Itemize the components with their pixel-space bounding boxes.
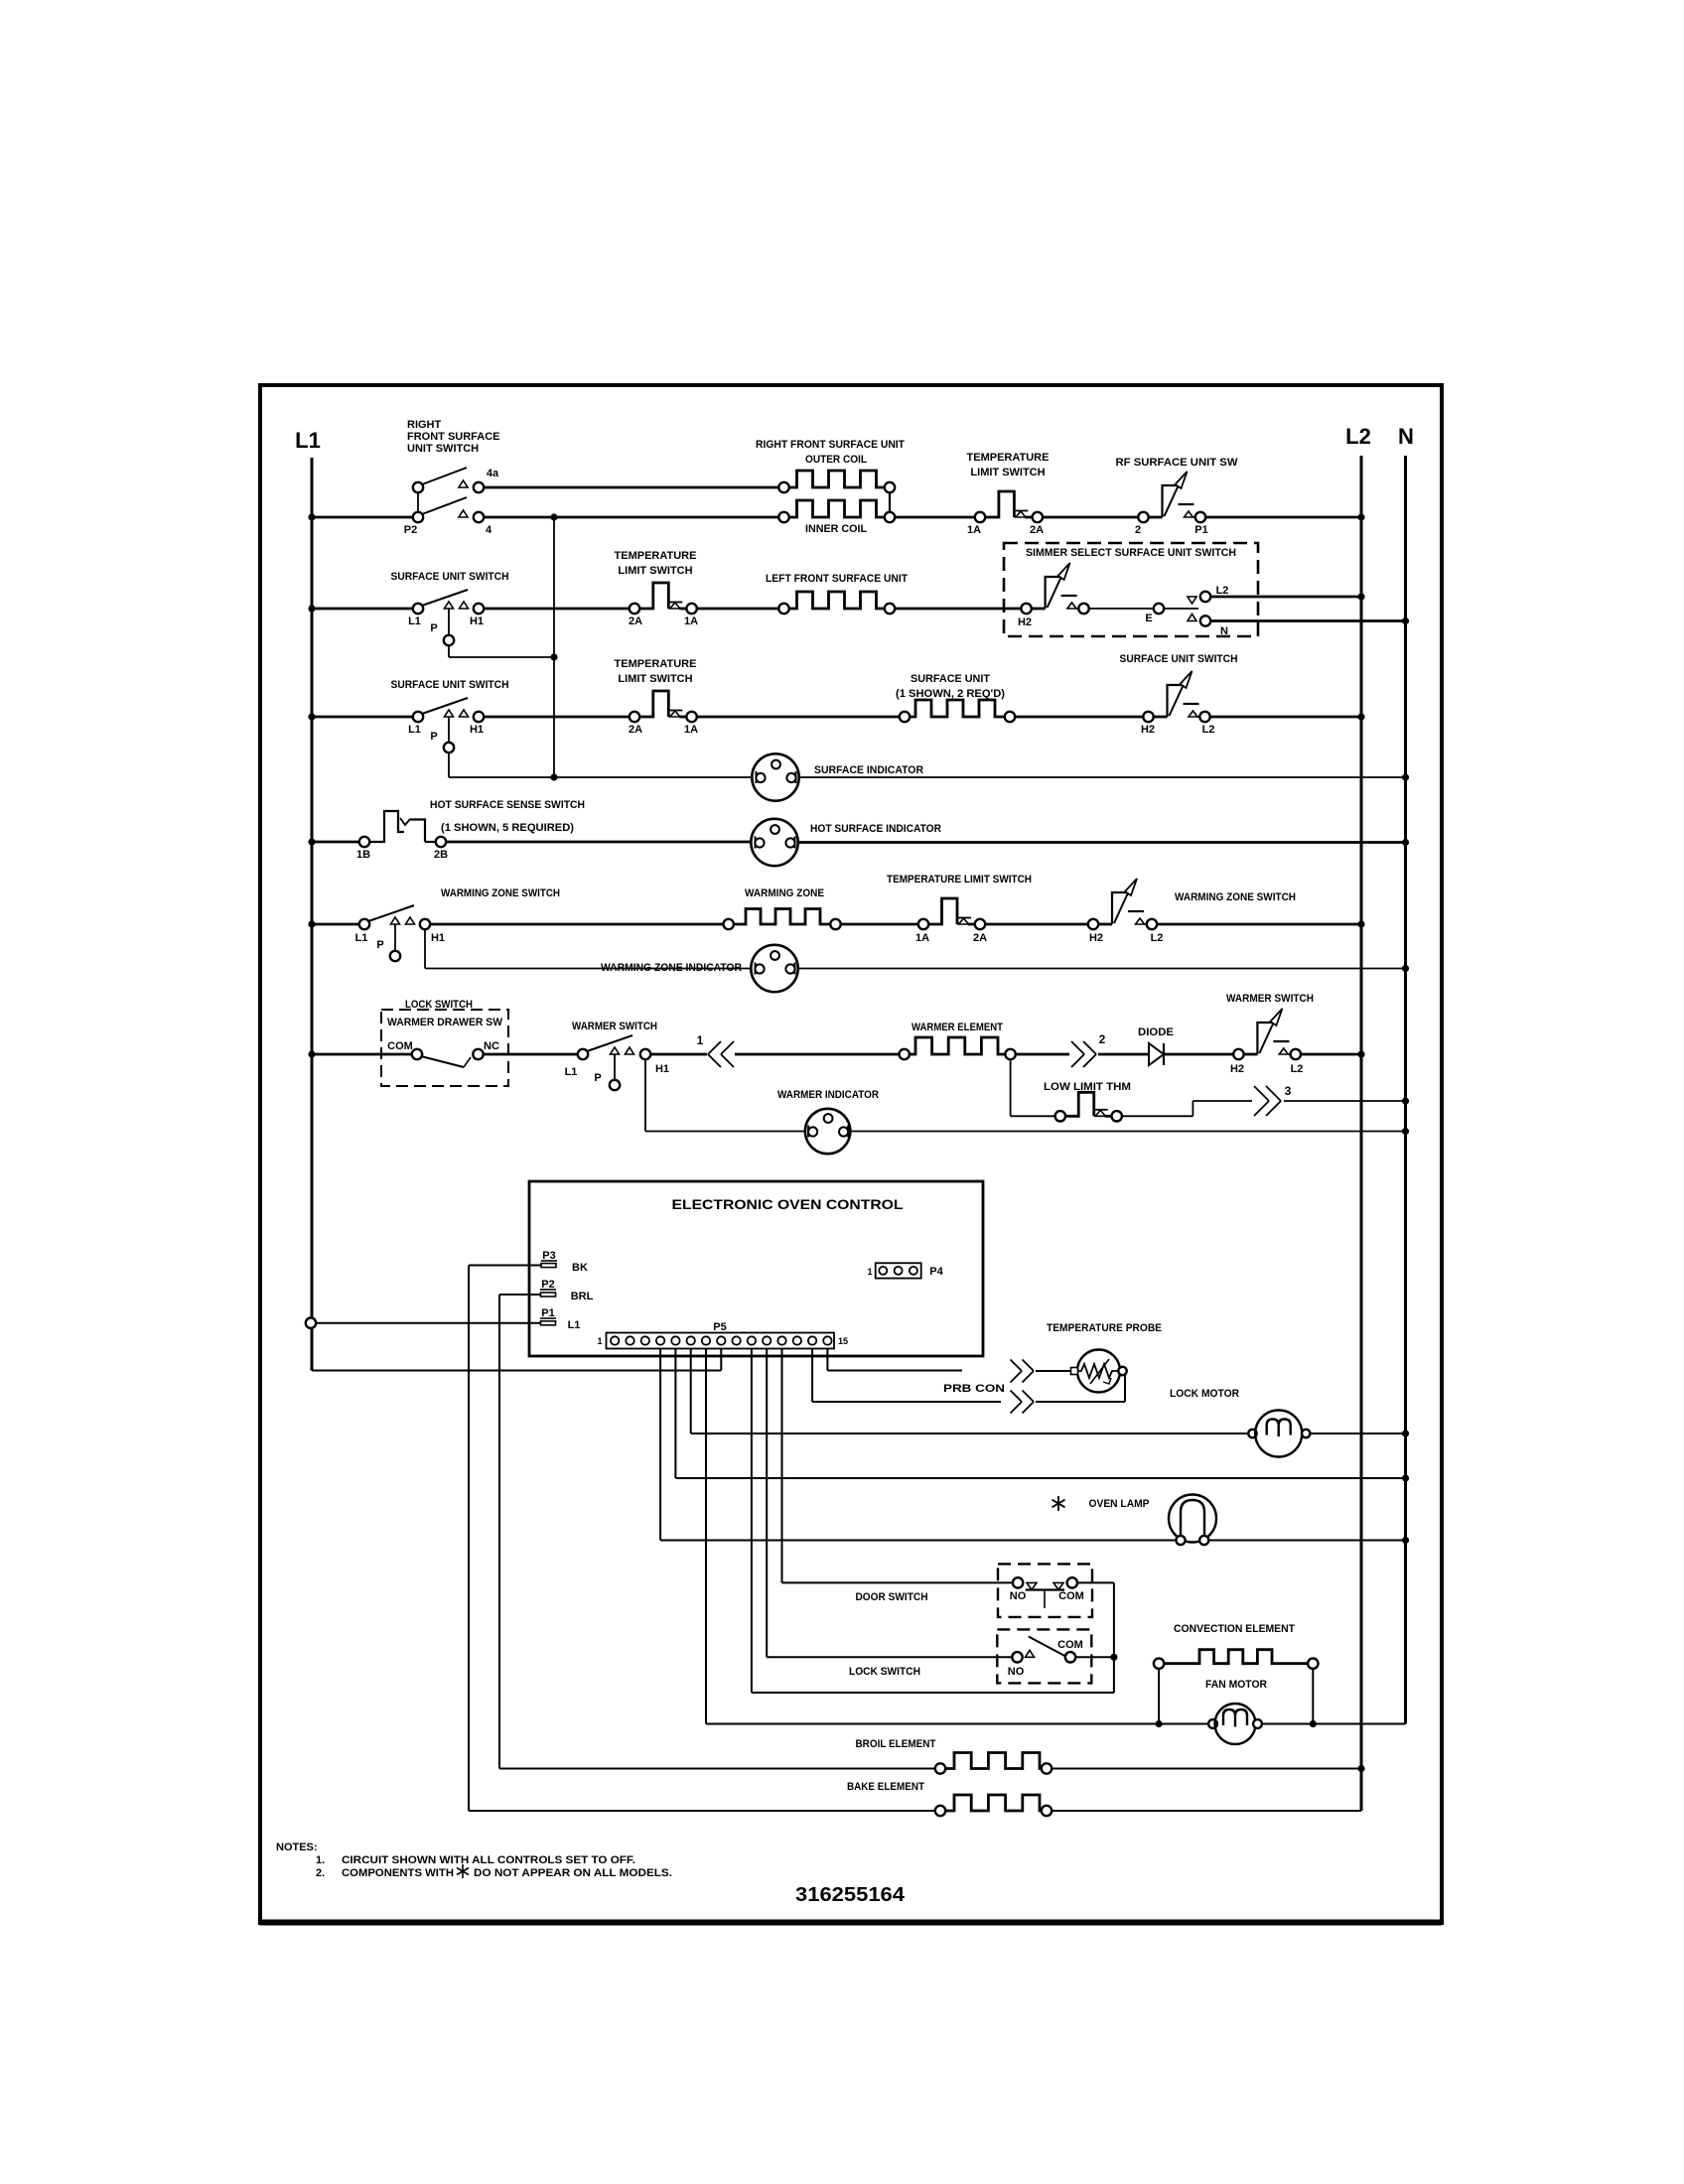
wire 2A to RF switch [1043, 516, 1138, 519]
wire L1 bottom to pin8 [312, 1370, 721, 1372]
svg-text:1: 1 [697, 1033, 704, 1047]
L1 rail [311, 458, 314, 1371]
warming zone indicator [751, 945, 797, 992]
svg-text:H1: H1 [470, 724, 484, 736]
svg-text:ELECTRONIC OVEN CONTROL: ELECTRONIC OVEN CONTROL [672, 1196, 904, 1212]
svg-text:L1: L1 [565, 1066, 578, 1078]
svg-text:OUTER COIL: OUTER COIL [805, 454, 867, 466]
connector P5 pins [611, 1336, 619, 1344]
junction L1 row3 [308, 713, 315, 720]
wire pin14 to probe return [811, 1349, 813, 1403]
wire pin12 to door switch [781, 1349, 783, 1583]
svg-text:1: 1 [597, 1336, 602, 1346]
wire element to connector 2 [1016, 1053, 1069, 1056]
warming zone switch [359, 919, 369, 929]
svg-text:1A: 1A [684, 615, 698, 627]
junction low limit N [1402, 1097, 1409, 1104]
junction oven lamp N [1402, 1537, 1409, 1544]
wire indicator to N [798, 841, 1406, 844]
svg-text:SURFACE UNIT: SURFACE UNIT [911, 673, 990, 685]
wire lock motor to N [1310, 1433, 1406, 1434]
svg-text:L2: L2 [1345, 424, 1371, 449]
switch link P2 [417, 492, 419, 512]
svg-text:2: 2 [1135, 524, 1141, 536]
svg-text:SURFACE UNIT SWITCH: SURFACE UNIT SWITCH [391, 679, 509, 691]
simmer selector upper contact L2 [1188, 597, 1196, 604]
wire connector3 to N [1284, 1100, 1406, 1102]
svg-text:COM: COM [1057, 1639, 1083, 1651]
svg-text:WARMER SWITCH: WARMER SWITCH [572, 1021, 657, 1032]
switch P2 pole lower (4) [413, 512, 423, 522]
svg-text:RF SURFACE UNIT SW: RF SURFACE UNIT SW [1116, 457, 1239, 469]
svg-text:2: 2 [1099, 1032, 1106, 1046]
warmer drawer sw box (dashed) [381, 1010, 508, 1086]
temperature probe [1077, 1350, 1120, 1393]
svg-text:LOCK SWITCH: LOCK SWITCH [849, 1666, 920, 1678]
svg-text:FRONT SURFACE: FRONT SURFACE [407, 431, 500, 443]
svg-text:P4: P4 [929, 1266, 943, 1278]
svg-text:LOCK MOTOR: LOCK MOTOR [1170, 1388, 1239, 1400]
svg-text:3: 3 [1285, 1084, 1292, 1098]
connector 3 chevrons [1254, 1086, 1269, 1101]
temperature limit switch row3 [639, 691, 668, 717]
warmer drawer switch [412, 1049, 422, 1059]
svg-text:N: N [1398, 424, 1414, 449]
wire 4a to outer coil [484, 486, 778, 489]
wire chevron to probe [1036, 1370, 1072, 1372]
junction L1 warmer [308, 1050, 315, 1057]
wire NC to warmer switch [484, 1053, 578, 1056]
junction row1 L2 [1357, 513, 1364, 520]
wire 1A to coil row2 [697, 608, 778, 611]
svg-text:WARMER SWITCH: WARMER SWITCH [1226, 993, 1314, 1005]
svg-text:OVEN LAMP: OVEN LAMP [1089, 1498, 1150, 1510]
junction conv right [1310, 1720, 1317, 1727]
svg-text:N: N [1220, 625, 1228, 637]
oven lamp asterisk [1052, 1496, 1065, 1511]
wire pin11 to lock switch [766, 1349, 768, 1658]
wire L1 to switch row2 [312, 608, 413, 611]
svg-text:WARMER INDICATOR: WARMER INDICATOR [777, 1089, 879, 1101]
terminal P3 bar [541, 1264, 556, 1268]
svg-text:1A: 1A [967, 524, 981, 536]
svg-text:LIMIT SWITCH: LIMIT SWITCH [618, 565, 692, 577]
lock switch contacts [1012, 1652, 1022, 1662]
svg-text:BAKE ELEMENT: BAKE ELEMENT [847, 1781, 924, 1793]
junction L1 row1 [308, 513, 315, 520]
wire 1A to coil row3 [697, 716, 900, 719]
wire pin4 to oven lamp [659, 1349, 661, 1541]
surface unit switch right [1143, 712, 1153, 722]
terminal E [1154, 604, 1164, 614]
wire 2B to indicator [446, 841, 752, 844]
junction row1 x558 [550, 513, 557, 520]
warmer switch left [578, 1049, 588, 1059]
temperature limit switch row1 [985, 491, 1014, 517]
svg-text:WARMING ZONE: WARMING ZONE [745, 887, 824, 899]
resistor left front surface unit [789, 592, 886, 609]
svg-text:COM: COM [1058, 1590, 1084, 1602]
terminal P1 bar [541, 1321, 556, 1325]
resistor outer coil [789, 471, 886, 487]
svg-text:P: P [594, 1072, 601, 1084]
svg-text:2A: 2A [1030, 524, 1044, 536]
svg-text:2A: 2A [629, 615, 642, 627]
wire warmer indicator to N [850, 1131, 1406, 1133]
wire pin15 to probe [826, 1349, 828, 1371]
oven lamp [1169, 1495, 1216, 1543]
svg-text:TEMPERATURE PROBE: TEMPERATURE PROBE [1047, 1322, 1162, 1334]
svg-text:DOOR SWITCH: DOOR SWITCH [856, 1591, 928, 1603]
temperature limit switch row2 [639, 583, 668, 609]
wire BK from P3 [469, 1265, 541, 1267]
svg-text:NO: NO [1010, 1590, 1027, 1602]
wire H1 to coil [430, 923, 723, 926]
prb con chevron bottom [1011, 1391, 1023, 1403]
svg-text:HOT SURFACE INDICATOR: HOT SURFACE INDICATOR [810, 823, 941, 835]
svg-text:SURFACE UNIT SWITCH: SURFACE UNIT SWITCH [391, 571, 509, 583]
svg-text:H2: H2 [1018, 616, 1032, 628]
wire warming to L2 [1157, 923, 1361, 926]
svg-text:TEMPERATURE: TEMPERATURE [967, 452, 1050, 464]
resistor warmer element [910, 1037, 1006, 1054]
surface indicator [752, 753, 798, 800]
switch P2 pole upper (4a) [413, 482, 423, 492]
wire warmer indicator drop [644, 1059, 646, 1132]
wire P1 to L2 [1205, 516, 1361, 519]
junction surface indicator N [1402, 773, 1409, 780]
svg-text:(1 SHOWN, 2 REQ'D): (1 SHOWN, 2 REQ'D) [896, 688, 1005, 700]
wire coil to 1A [841, 923, 919, 926]
terminal P2 bar [541, 1293, 556, 1297]
electronic oven control box [529, 1181, 983, 1356]
resistor warming zone [734, 909, 831, 925]
svg-text:P5: P5 [713, 1321, 726, 1333]
svg-text:INNER COIL: INNER COIL [805, 523, 867, 535]
junction conv left [1156, 1720, 1163, 1727]
svg-text:BROIL ELEMENT: BROIL ELEMENT [856, 1738, 936, 1750]
junction simmer N [1402, 617, 1409, 624]
svg-text:P: P [430, 622, 437, 634]
wire oven lamp to N [1208, 1540, 1406, 1542]
svg-text:NO: NO [1008, 1666, 1025, 1678]
wire pin10 to com node [751, 1349, 753, 1694]
wire H1 to connector 1 [650, 1053, 707, 1056]
wire surface indicator line [554, 776, 752, 778]
svg-text:1.: 1. [316, 1854, 325, 1866]
temperature limit switch warming [928, 898, 957, 924]
wire x558 vertical [553, 517, 555, 777]
svg-text:RIGHT FRONT SURFACE UNIT: RIGHT FRONT SURFACE UNIT [756, 439, 905, 451]
connector 1 chevrons [708, 1041, 721, 1054]
junction row3 L2 [1357, 713, 1364, 720]
svg-text:P: P [430, 731, 437, 743]
svg-text:2B: 2B [434, 849, 448, 861]
junction warming indicator N [1402, 965, 1409, 972]
wire outer-inner link [889, 492, 891, 512]
svg-text:L2: L2 [1291, 1063, 1304, 1075]
svg-text:COMPONENTS WITH: COMPONENTS WITH [342, 1867, 454, 1879]
warming zone infinite switch [1088, 919, 1098, 929]
wire H1 to 2A row3 [484, 716, 630, 719]
junction pin5 N [1402, 1474, 1409, 1481]
connector P5 box [607, 1333, 835, 1349]
svg-text:L1: L1 [568, 1319, 581, 1331]
svg-text:15: 15 [838, 1336, 848, 1346]
wire pin5 to N [674, 1349, 676, 1479]
svg-text:LEFT FRONT SURFACE UNIT: LEFT FRONT SURFACE UNIT [766, 573, 908, 585]
svg-text:NC: NC [484, 1040, 499, 1052]
resistor surface unit [910, 700, 1005, 717]
wire coil to simmer box [895, 608, 1021, 611]
svg-text:L2: L2 [1151, 932, 1164, 944]
surface unit switch row2 [413, 604, 423, 614]
wire BRL vertical [498, 1295, 500, 1769]
resistor convection element [1164, 1650, 1308, 1664]
wire L1 to switch P2 [312, 516, 413, 519]
N rail [1404, 456, 1407, 1724]
svg-text:H2: H2 [1141, 724, 1155, 736]
svg-text:4a: 4a [487, 468, 499, 479]
svg-text:E: E [1145, 613, 1152, 624]
simmer selector lower contact N [1188, 614, 1196, 621]
svg-text:H1: H1 [470, 615, 484, 627]
wire convection drops [1158, 1669, 1160, 1724]
wire L1 to warming switch [312, 923, 359, 926]
svg-text:SIMMER SELECT SURFACE UNIT SWI: SIMMER SELECT SURFACE UNIT SWITCH [1026, 547, 1236, 559]
wire connector1 to warmer element [735, 1053, 900, 1056]
svg-text:DIODE: DIODE [1138, 1026, 1174, 1038]
svg-text:(1 SHOWN, 5 REQUIRED): (1 SHOWN, 5 REQUIRED) [441, 822, 574, 834]
resistor broil element [945, 1753, 1042, 1769]
junction P-link row3 [550, 773, 557, 780]
simmer select switch [1021, 604, 1031, 614]
junction hot surface N [1402, 839, 1409, 846]
svg-text:WARMING ZONE SWITCH: WARMING ZONE SWITCH [1175, 891, 1296, 903]
svg-text:CIRCUIT SHOWN WITH ALL CONTROL: CIRCUIT SHOWN WITH ALL CONTROLS SET TO O… [342, 1854, 635, 1866]
wire door COM out [1077, 1581, 1114, 1583]
junction P-link row2 [550, 653, 557, 660]
resistor inner coil [789, 500, 886, 517]
wire chevron bottom to probe [1036, 1401, 1125, 1403]
svg-text:WARMER DRAWER SW: WARMER DRAWER SW [387, 1017, 503, 1028]
svg-text:4: 4 [486, 524, 492, 536]
svg-text:H1: H1 [431, 932, 445, 944]
junction lock COM [1110, 1654, 1117, 1661]
svg-text:TEMPERATURE: TEMPERATURE [615, 658, 697, 670]
svg-text:LIMIT SWITCH: LIMIT SWITCH [970, 467, 1045, 478]
door switch box (dashed) [998, 1564, 1092, 1617]
L2 rail [1360, 456, 1363, 1811]
svg-text:SURFACE UNIT SWITCH: SURFACE UNIT SWITCH [1120, 653, 1238, 665]
wire row3 to L2 [1210, 716, 1362, 719]
junction lock motor N [1402, 1430, 1409, 1436]
svg-text:RIGHT: RIGHT [407, 419, 442, 431]
svg-text:NOTES:: NOTES: [276, 1842, 318, 1853]
warmer switch right [1233, 1049, 1243, 1059]
svg-text:P1: P1 [1194, 524, 1207, 536]
svg-text:LIMIT SWITCH: LIMIT SWITCH [618, 673, 692, 685]
svg-text:WARMING ZONE INDICATOR: WARMING ZONE INDICATOR [601, 962, 742, 974]
junction broil L2 [1357, 1765, 1364, 1772]
svg-text:TEMPERATURE: TEMPERATURE [615, 550, 697, 562]
svg-text:TEMPERATURE LIMIT SWITCH: TEMPERATURE LIMIT SWITCH [887, 874, 1032, 886]
terminal L1 rail circle [306, 1318, 316, 1328]
svg-text:1A: 1A [684, 724, 698, 736]
wire P link row2 [448, 646, 450, 657]
svg-text:PRB CON: PRB CON [943, 1383, 1005, 1395]
simmer select box (dashed) [1004, 543, 1258, 636]
junction warming L2 [1357, 920, 1364, 927]
junction L1 warming [308, 920, 315, 927]
svg-text:WARMER ELEMENT: WARMER ELEMENT [912, 1022, 1003, 1033]
svg-text:BRL: BRL [571, 1291, 594, 1302]
prb con chevron top [1011, 1360, 1023, 1372]
svg-text:WARMING ZONE SWITCH: WARMING ZONE SWITCH [441, 887, 560, 899]
svg-text:P: P [376, 939, 383, 951]
wire broil to L2 [1052, 1768, 1361, 1770]
junction warmer indicator N [1402, 1128, 1409, 1135]
wire coil to switch row3 [1015, 716, 1143, 719]
junction warmer L2 [1357, 1050, 1364, 1057]
surface unit switch row3 [413, 712, 423, 722]
svg-text:2A: 2A [973, 932, 987, 944]
rf surface unit switch [1138, 512, 1148, 522]
svg-text:UNIT SWITCH: UNIT SWITCH [407, 443, 479, 455]
wire BK vertical [468, 1266, 470, 1812]
svg-text:L2: L2 [1202, 724, 1215, 736]
warmer indicator [805, 1109, 850, 1154]
svg-text:2.: 2. [316, 1867, 325, 1879]
wire H1 to 2A row2 [484, 608, 630, 611]
svg-text:FAN MOTOR: FAN MOTOR [1205, 1679, 1267, 1691]
wire P link row3 [448, 753, 450, 777]
junction simmer L2 [1357, 593, 1364, 600]
svg-text:L1: L1 [295, 428, 321, 453]
svg-text:H2: H2 [1089, 932, 1103, 944]
junction L1 hot surface [308, 838, 315, 845]
lock motor [1248, 1430, 1256, 1437]
svg-text:1: 1 [867, 1267, 872, 1277]
connector P4 pins [879, 1267, 887, 1275]
svg-text:316255164: 316255164 [795, 1884, 906, 1906]
wire BRL from P2 [499, 1294, 541, 1296]
connector 2 chevrons [1071, 1041, 1084, 1054]
wire inner coil to 1A [895, 516, 975, 519]
wire 4 to inner coil [484, 516, 778, 519]
svg-text:P2: P2 [404, 524, 417, 536]
svg-text:COM: COM [387, 1040, 413, 1052]
wire low limit right [1122, 1115, 1193, 1117]
hot surface indicator [751, 819, 797, 866]
wire warming indicator to N [798, 968, 1406, 970]
junction L1 row2 [308, 605, 315, 612]
wire warmer to L2 [1301, 1053, 1361, 1056]
svg-text:2A: 2A [629, 724, 642, 736]
wire diode to H2 [1164, 1053, 1233, 1056]
lock switch box (dashed) [997, 1629, 1091, 1683]
wire lock COM out [1075, 1656, 1114, 1658]
wire L1 to 1B [312, 841, 359, 844]
wire simmer N out [1210, 619, 1406, 622]
hot surface sense switch [359, 837, 369, 847]
wire warming indicator drop [424, 929, 426, 969]
wire element junction drop [1010, 1059, 1012, 1116]
connector P4 box [876, 1263, 921, 1278]
svg-text:L1: L1 [355, 932, 368, 944]
wire connector2 to diode [1098, 1053, 1149, 1056]
wire bake to L2 [1052, 1810, 1361, 1812]
fan motor [1208, 1719, 1217, 1728]
svg-text:BK: BK [572, 1262, 588, 1274]
page border frame [260, 385, 1442, 1923]
wire L1 to COM [312, 1053, 412, 1056]
svg-text:1A: 1A [915, 932, 929, 944]
svg-text:HOT SURFACE SENSE SWITCH: HOT SURFACE SENSE SWITCH [430, 799, 585, 811]
svg-text:H2: H2 [1230, 1063, 1244, 1075]
wire pin6 to lock motor [690, 1349, 692, 1434]
svg-text:DO NOT APPEAR ON ALL MODELS.: DO NOT APPEAR ON ALL MODELS. [474, 1867, 672, 1879]
wire pin7 to fan row [705, 1349, 707, 1724]
wire fan motor to N [1262, 1723, 1406, 1725]
svg-text:CONVECTION ELEMENT: CONVECTION ELEMENT [1174, 1623, 1295, 1635]
wire simmer L2 out [1210, 596, 1361, 599]
svg-text:L1: L1 [408, 615, 421, 627]
wire simmer mid [1089, 608, 1155, 610]
wire drop to low limit [1011, 1115, 1054, 1117]
wire E to selector [1164, 608, 1198, 610]
svg-text:SURFACE INDICATOR: SURFACE INDICATOR [814, 764, 923, 776]
wire 2A to H2 [985, 923, 1088, 926]
door switch contacts [1013, 1577, 1023, 1587]
svg-text:H1: H1 [655, 1063, 669, 1075]
svg-text:L2: L2 [1216, 585, 1229, 597]
resistor bake element [945, 1795, 1042, 1811]
wire L1 to switch row3 [312, 716, 413, 719]
diode D1 [1149, 1043, 1164, 1065]
svg-text:1B: 1B [356, 849, 370, 861]
low limit thermostat [1065, 1092, 1094, 1116]
wire L1 to P1 [316, 1322, 541, 1324]
svg-text:L1: L1 [408, 724, 421, 736]
